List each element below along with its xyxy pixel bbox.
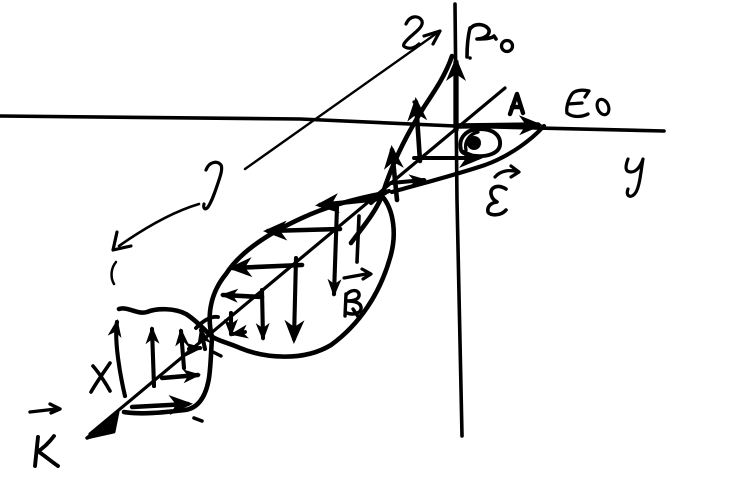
label z	[404, 17, 423, 48]
E down arrow c	[294, 258, 296, 339]
label B vector	[345, 291, 361, 318]
label E0	[567, 90, 589, 116]
knot stroke at Z2	[196, 317, 218, 328]
x-axis arrowhead	[87, 412, 118, 438]
y field arrow E0	[458, 125, 538, 126]
B left arrow 4	[223, 295, 262, 297]
lambda pointer arrow	[119, 204, 199, 246]
label E vector	[488, 187, 506, 215]
label B0	[467, 28, 470, 57]
z-axis (vertical)	[455, 4, 462, 436]
B left arrow 2	[268, 229, 340, 231]
stray dot near up arrow	[412, 100, 415, 103]
B right arrow bottom 2	[162, 375, 198, 378]
B left arrow 3	[233, 265, 302, 268]
E down arrow b	[357, 216, 359, 262]
B right arrow bottom 1	[132, 404, 188, 407]
E envelope middle lobe (down)	[211, 196, 394, 357]
E sinusoid rising segment to z-axis	[351, 56, 452, 243]
bottom lobe left edge arrow	[116, 322, 125, 396]
E down arrow e	[229, 313, 233, 334]
label K	[30, 404, 60, 413]
rotation loop at origin	[460, 129, 500, 156]
z field arrow B0	[453, 62, 458, 130]
loop inner arc	[466, 132, 478, 150]
E envelope bottom lobe (top)	[119, 308, 212, 337]
bottom lobe up arrow 1	[152, 329, 154, 386]
bottom lobe up arrow 3 (near knot)	[201, 330, 205, 349]
label A	[510, 94, 523, 114]
lambda guide arrowhead	[424, 31, 440, 44]
B right arrow bottom 3	[189, 348, 200, 349]
loop dot	[467, 136, 481, 150]
stray dot below B0	[468, 56, 472, 60]
B left arrow 5 (small, near Z2)	[233, 332, 245, 334]
dash mark under bottom lobe	[194, 418, 202, 421]
x-axis (wave propagation axis)	[90, 88, 505, 434]
small hook below pointer	[112, 262, 116, 284]
B helper arrow near origin	[414, 156, 478, 160]
E up arrow 2	[416, 102, 420, 161]
B envelope bottom lobe	[124, 338, 212, 413]
B envelope middle lobe	[210, 193, 385, 337]
B small right arrow below origin	[391, 180, 424, 183]
y-axis (horizontal)	[0, 116, 664, 131]
B envelope near origin	[392, 126, 544, 192]
bottom lobe up arrow 2	[181, 331, 184, 368]
E up arrow 1	[392, 150, 397, 200]
B left arrow 1	[320, 199, 378, 205]
knot tick below Z2	[211, 351, 221, 356]
lambda guide line	[245, 33, 437, 169]
label y	[626, 159, 643, 196]
E down arrow d	[262, 290, 263, 338]
E down arrow a	[334, 207, 337, 294]
label lambda	[204, 162, 222, 209]
label X	[91, 363, 110, 392]
knot stroke at Z1	[371, 191, 389, 203]
